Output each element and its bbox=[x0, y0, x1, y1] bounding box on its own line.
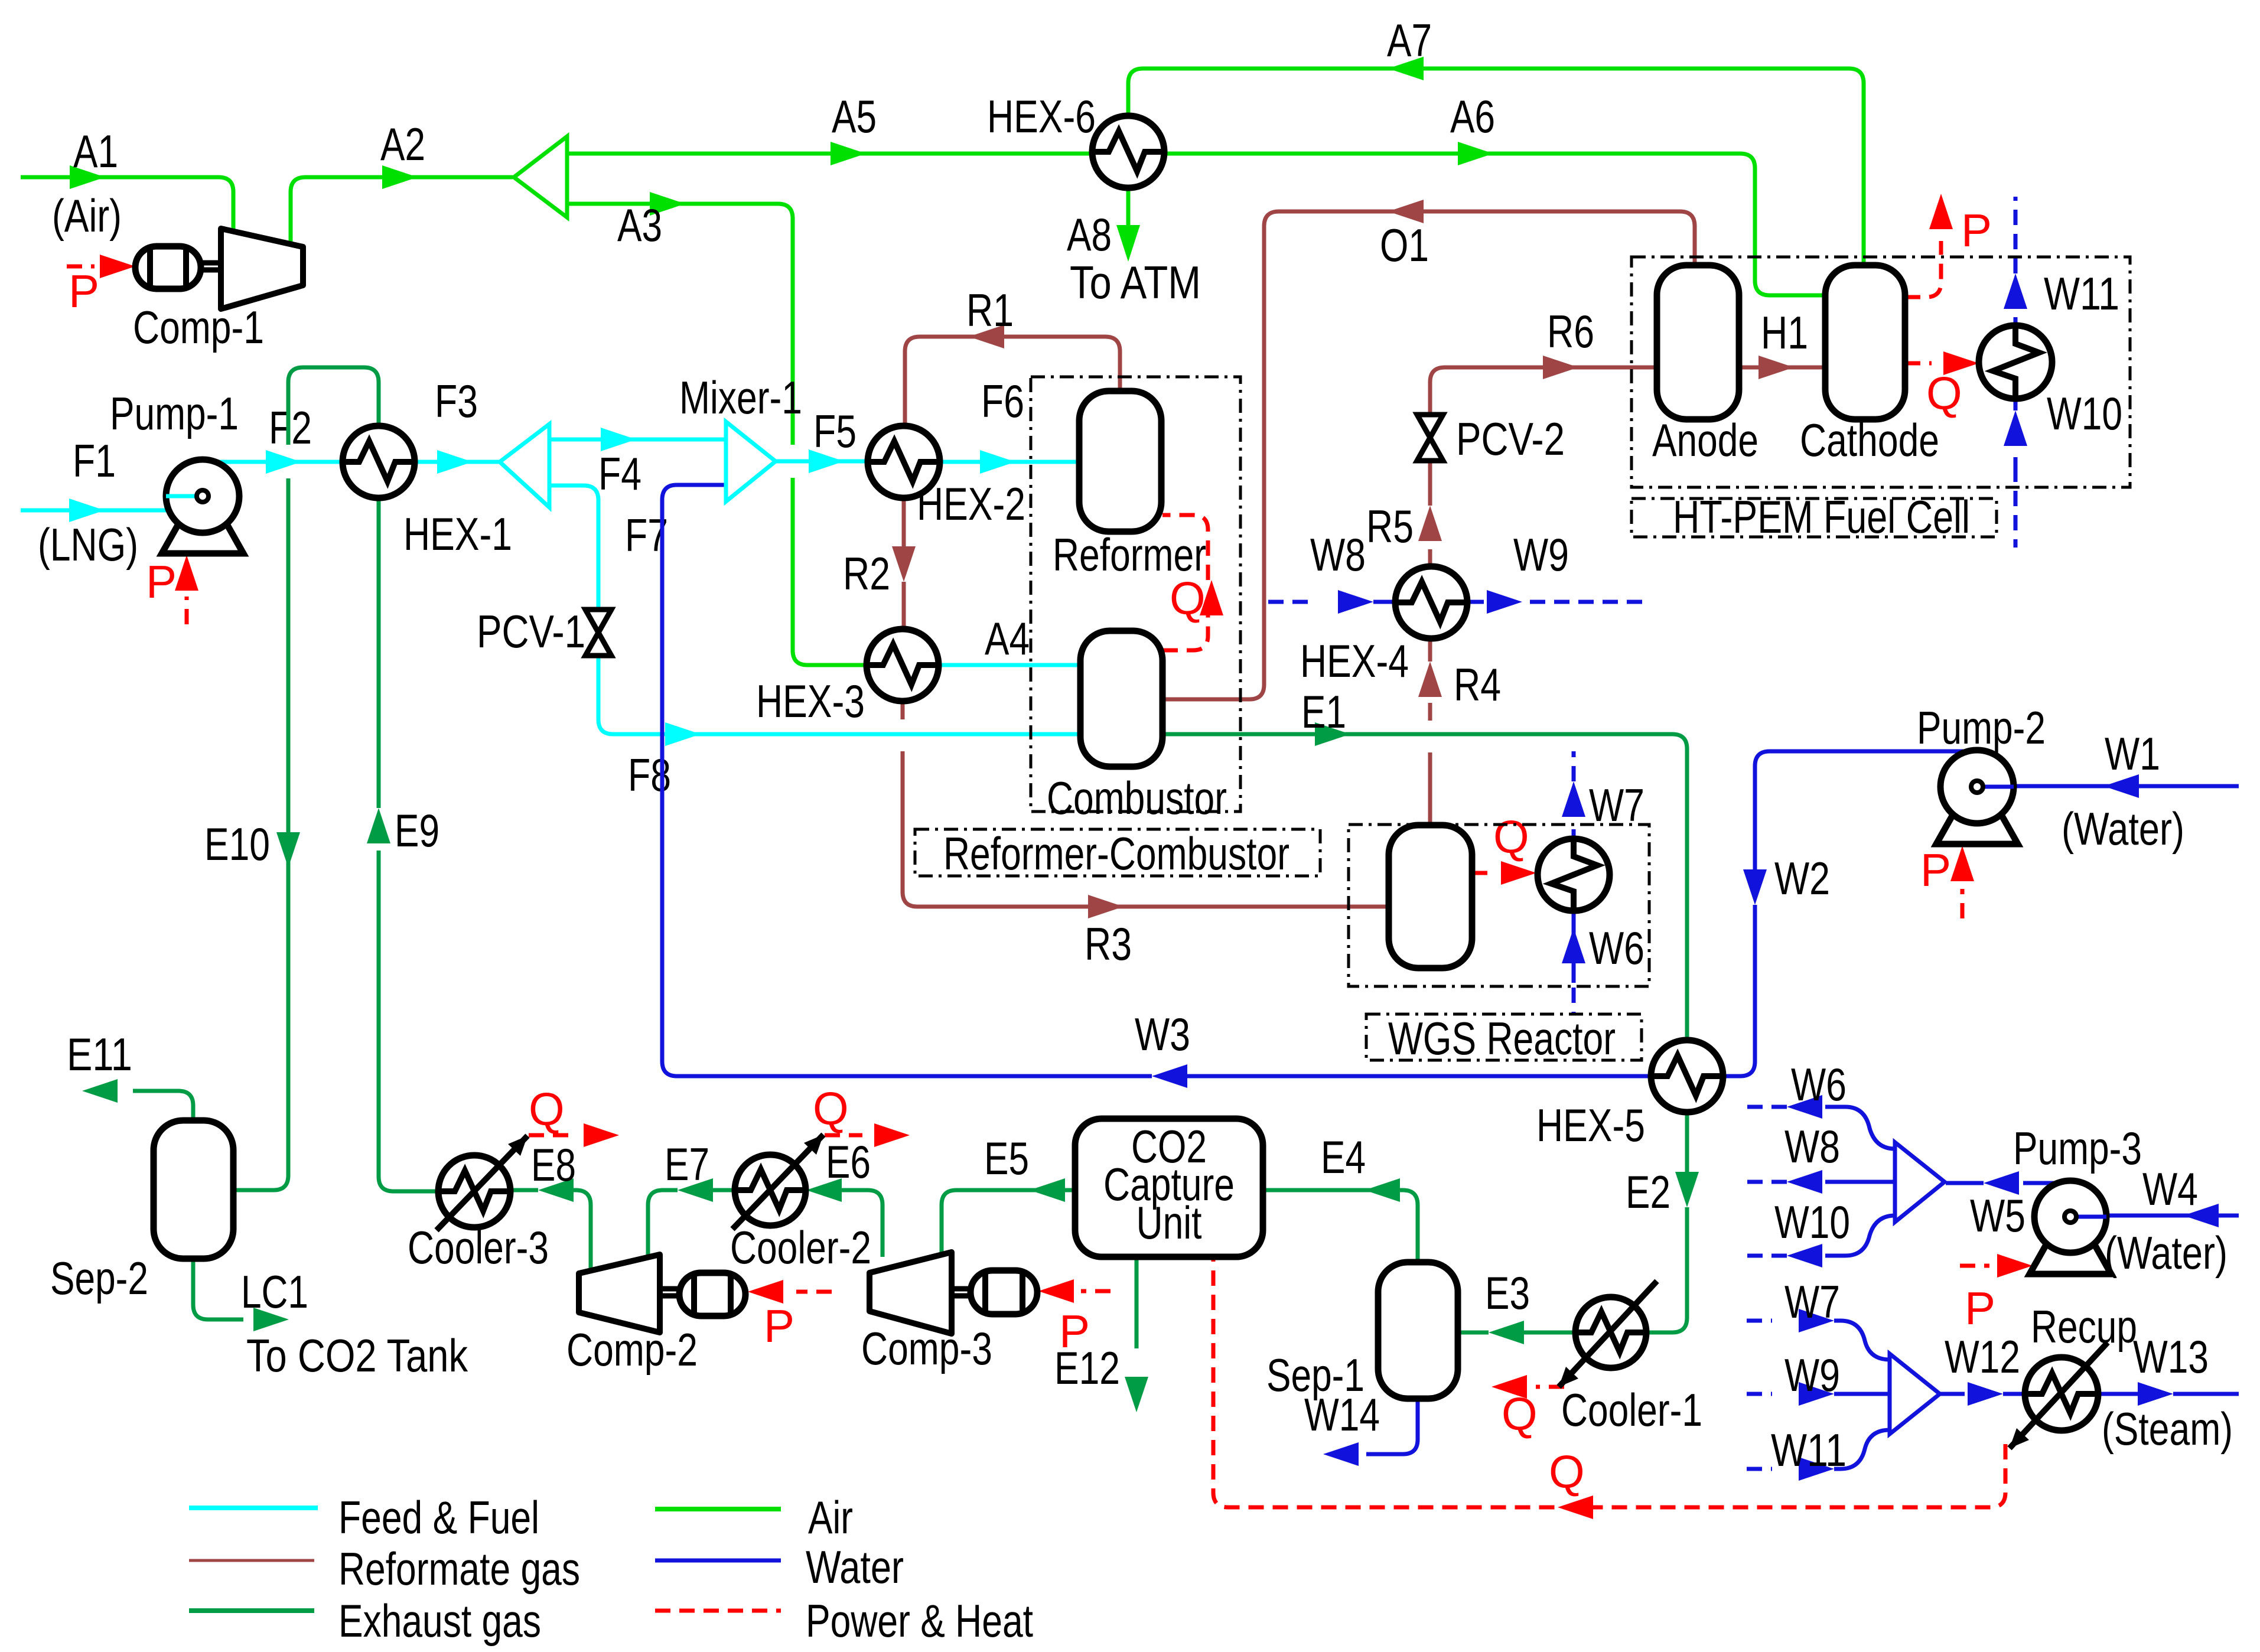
svg-text:(LNG): (LNG) bbox=[38, 519, 138, 571]
wire A7 Cathode to HEX-6 bbox=[1128, 69, 1864, 265]
vessel Cathode bbox=[1825, 265, 1905, 419]
pump Pump-3 bbox=[2030, 1242, 2111, 1274]
svg-text:W12: W12 bbox=[1945, 1331, 2020, 1383]
power P to Comp-2 bbox=[796, 1290, 832, 1294]
unit CO2 Capture bbox=[1075, 1119, 1263, 1257]
svg-text:A8: A8 bbox=[1067, 208, 1112, 260]
svg-text:Q: Q bbox=[1549, 1446, 1585, 1498]
power P to Pump-3 bbox=[1960, 1264, 1989, 1268]
cooler Cooler-1 bbox=[1575, 1297, 1646, 1368]
wire F1 LNG inlet bbox=[21, 509, 203, 513]
wire A1 air inlet bbox=[21, 177, 233, 231]
splitter tee feed bbox=[500, 424, 549, 507]
wire W7 WGS exchanger up bbox=[1572, 829, 1576, 839]
wire E1 Combustor to HEX-5 bbox=[1162, 734, 1687, 1040]
svg-text:Reformer-Combustor: Reformer-Combustor bbox=[943, 827, 1289, 879]
svg-text:Sep-2: Sep-2 bbox=[50, 1252, 148, 1304]
legend water line bbox=[655, 1559, 781, 1563]
wire E5 CO2 unit to Comp-3 bbox=[942, 1190, 1075, 1256]
svg-text:Q: Q bbox=[1926, 367, 1962, 419]
heat exchanger WGS cooling bbox=[1538, 839, 1610, 911]
wire A4 HEX-3 to Combustor bbox=[938, 663, 1080, 667]
svg-text:W6: W6 bbox=[1791, 1058, 1847, 1110]
svg-text:(Water): (Water) bbox=[2062, 803, 2184, 855]
wire W11 stub bbox=[1747, 1467, 1772, 1471]
svg-text:W8: W8 bbox=[1784, 1120, 1840, 1172]
svg-text:P: P bbox=[69, 265, 99, 317]
svg-text:A3: A3 bbox=[617, 199, 662, 251]
svg-text:E2: E2 bbox=[1626, 1166, 1670, 1218]
heat Q Cathode to exchanger bbox=[1905, 361, 1932, 366]
vessel Anode bbox=[1657, 265, 1739, 419]
svg-text:P: P bbox=[1965, 1282, 1995, 1334]
wire F5 Mixer-1 to HEX-2 bbox=[776, 460, 867, 464]
compressor Comp-2 bbox=[579, 1255, 660, 1332]
svg-text:O1: O1 bbox=[1380, 219, 1429, 271]
svg-text:LC1: LC1 bbox=[241, 1266, 308, 1318]
wire O1 Anode to Combustor bbox=[1161, 211, 1695, 699]
power P to Comp-3 bbox=[1081, 1289, 1111, 1293]
svg-text:H1: H1 bbox=[1761, 307, 1808, 359]
svg-text:R6: R6 bbox=[1547, 305, 1594, 357]
wire F2 Pump-1 to HEX-1 bbox=[207, 460, 343, 464]
wire W12 merger to Recup bbox=[1940, 1392, 1965, 1396]
svg-text:(Steam): (Steam) bbox=[2102, 1403, 2233, 1455]
heat exchanger HEX-2 bbox=[868, 426, 940, 498]
wire A6 HEX-6 to Cathode bbox=[1164, 154, 1825, 295]
svg-text:R2: R2 bbox=[843, 548, 890, 599]
power P from Cathode bbox=[1905, 241, 1941, 297]
heat exchanger HEX-6 bbox=[1092, 116, 1164, 188]
cooler Cooler-3 bbox=[438, 1155, 510, 1227]
svg-text:Q: Q bbox=[813, 1083, 849, 1135]
heat Q Cooler-1 out bbox=[1536, 1385, 1564, 1389]
svg-text:Exhaust gas: Exhaust gas bbox=[338, 1595, 541, 1647]
svg-text:P: P bbox=[764, 1300, 794, 1352]
svg-text:E6: E6 bbox=[826, 1136, 871, 1188]
svg-text:Comp-3: Comp-3 bbox=[861, 1322, 992, 1374]
svg-text:PCV-2: PCV-2 bbox=[1456, 413, 1565, 465]
wire E3 Cooler-1 to Sep-1 bbox=[1524, 1331, 1575, 1335]
wire E6 Comp-3 to Cooler-2 bbox=[842, 1190, 882, 1257]
svg-text:W11: W11 bbox=[1771, 1424, 1847, 1476]
svg-text:HEX-6: HEX-6 bbox=[987, 90, 1096, 142]
legend feed line bbox=[189, 1506, 318, 1510]
svg-text:Combustor: Combustor bbox=[1047, 772, 1227, 824]
pump Pump-2 bbox=[1936, 812, 2018, 844]
wire W13 Recup out bbox=[2098, 1392, 2138, 1396]
wire R4 WGS to HEX-4 bbox=[1428, 703, 1432, 825]
compressor Comp-3 bbox=[870, 1252, 952, 1334]
svg-text:R4: R4 bbox=[1454, 659, 1501, 711]
legend power line bbox=[655, 1609, 781, 1613]
svg-text:E4: E4 bbox=[1321, 1131, 1366, 1183]
svg-text:F6: F6 bbox=[981, 375, 1024, 427]
svg-text:Reformate gas: Reformate gas bbox=[338, 1543, 580, 1595]
svg-text:Q: Q bbox=[529, 1083, 565, 1135]
svg-text:W13: W13 bbox=[2133, 1331, 2209, 1383]
svg-text:W11: W11 bbox=[2044, 268, 2119, 320]
svg-text:R5: R5 bbox=[1366, 500, 1414, 552]
svg-text:F4: F4 bbox=[598, 448, 641, 500]
wire R1 Reformer to HEX-2 bbox=[905, 337, 1120, 426]
svg-text:W14: W14 bbox=[1304, 1389, 1380, 1441]
svg-text:F3: F3 bbox=[435, 375, 478, 427]
svg-text:W7: W7 bbox=[1784, 1276, 1840, 1328]
box HT-PEM Fuel Cell bbox=[1632, 257, 2130, 487]
svg-text:W3: W3 bbox=[1135, 1008, 1190, 1060]
motor M2 of Comp-2 bbox=[679, 1273, 745, 1316]
wire H1 Anode to Cathode bbox=[1739, 366, 1825, 370]
svg-text:F5: F5 bbox=[813, 405, 857, 457]
wire E2 HEX-5 to Cooler-1 bbox=[1685, 1113, 1689, 1172]
svg-text:HEX-4: HEX-4 bbox=[1300, 635, 1409, 687]
vessel Sep-2 bbox=[154, 1120, 233, 1259]
wire F3 HEX-1 to splitter bbox=[415, 460, 499, 464]
vessel Sep-1 bbox=[1378, 1262, 1458, 1399]
wire W11 exchanger up bbox=[2014, 317, 2018, 325]
wire W4 water inlet pump-3 bbox=[2072, 1214, 2239, 1218]
svg-text:HEX-3: HEX-3 bbox=[756, 675, 865, 727]
svg-text:Unit: Unit bbox=[1136, 1197, 1202, 1249]
svg-text:A5: A5 bbox=[832, 90, 877, 142]
svg-text:To ATM: To ATM bbox=[1070, 256, 1201, 308]
legend exhaust line bbox=[189, 1608, 314, 1613]
svg-text:Water: Water bbox=[806, 1541, 904, 1593]
svg-text:W10: W10 bbox=[2047, 387, 2122, 439]
power P to Pump-2 bbox=[1961, 889, 1965, 918]
heat Q Cooler-3 out bbox=[529, 1133, 568, 1138]
wire R6 PCV-2 to Anode bbox=[1430, 367, 1656, 415]
wire E9 Cooler-3 to HEX-1 loop to E10 bbox=[379, 851, 438, 1191]
valve PCV-2 bbox=[1417, 415, 1443, 438]
wire W9 stub bbox=[1747, 1392, 1772, 1396]
svg-text:Power & Heat: Power & Heat bbox=[806, 1595, 1033, 1647]
svg-text:W8: W8 bbox=[1310, 529, 1366, 581]
svg-text:Cooler-2: Cooler-2 bbox=[730, 1221, 871, 1273]
wire F8 PCV-1 to Combustor bbox=[598, 656, 1081, 734]
svg-text:Q: Q bbox=[1493, 811, 1529, 863]
svg-text:F8: F8 bbox=[628, 749, 671, 801]
svg-text:E5: E5 bbox=[984, 1132, 1029, 1184]
svg-text:W10: W10 bbox=[1774, 1196, 1850, 1248]
wire F6 HEX-2 to Reformer bbox=[940, 460, 1079, 464]
wire F7 splitter to PCV-1 bbox=[549, 486, 598, 609]
svg-text:E8: E8 bbox=[531, 1139, 576, 1191]
svg-text:R3: R3 bbox=[1085, 918, 1132, 970]
svg-text:HEX-5: HEX-5 bbox=[1536, 1099, 1645, 1151]
power P to Pump-1 bbox=[185, 597, 189, 624]
svg-text:E10: E10 bbox=[204, 818, 270, 870]
svg-text:W4: W4 bbox=[2142, 1163, 2198, 1215]
power P to Comp-1 bbox=[67, 265, 95, 269]
svg-text:A2: A2 bbox=[380, 118, 425, 170]
wire W1 water inlet bbox=[1979, 784, 2239, 788]
svg-text:Q: Q bbox=[1170, 572, 1206, 624]
heat exchanger HEX-5 bbox=[1651, 1040, 1723, 1112]
wire E11 Sep-2 out bbox=[133, 1091, 193, 1120]
heat Q Recup to CO2 unit bbox=[1213, 1258, 2005, 1507]
svg-text:Feed & Fuel: Feed & Fuel bbox=[338, 1491, 539, 1543]
svg-text:PCV-1: PCV-1 bbox=[477, 605, 585, 657]
heat exchanger HEX-4 bbox=[1395, 566, 1467, 638]
box WGS Reactor bbox=[1349, 825, 1649, 986]
motor M1 of Comp-1 bbox=[135, 246, 201, 289]
svg-text:E7: E7 bbox=[665, 1138, 709, 1190]
vessel Reformer bbox=[1079, 391, 1161, 532]
svg-text:E3: E3 bbox=[1485, 1267, 1530, 1319]
svg-text:W6: W6 bbox=[1589, 922, 1644, 974]
motor M3 of Comp-3 bbox=[971, 1270, 1037, 1314]
wire W9 HEX-4 out bbox=[1467, 600, 1484, 604]
wire A2 Comp-1 to splitter bbox=[291, 177, 513, 245]
legend air line bbox=[655, 1507, 781, 1511]
label box HT-PEM Fuel Cell bbox=[1632, 498, 1997, 537]
svg-text:Pump-3: Pump-3 bbox=[2013, 1122, 2142, 1174]
svg-text:P: P bbox=[146, 556, 177, 608]
wire R3 HEX-3 to WGS bbox=[903, 701, 1388, 907]
svg-text:F1: F1 bbox=[73, 435, 116, 487]
svg-text:E9: E9 bbox=[395, 804, 439, 856]
svg-text:To CO2 Tank: To CO2 Tank bbox=[246, 1330, 468, 1381]
svg-text:Pump-1: Pump-1 bbox=[110, 387, 239, 439]
svg-text:WGS Reactor: WGS Reactor bbox=[1388, 1012, 1616, 1064]
heat exchanger HEX-1 bbox=[343, 426, 415, 498]
splitter water bbox=[1895, 1142, 1945, 1222]
heat Q WGS to exchanger bbox=[1472, 871, 1489, 875]
heat Q Combustor to Reformer bbox=[1162, 515, 1208, 650]
svg-text:Q: Q bbox=[1502, 1388, 1538, 1440]
svg-text:P: P bbox=[1920, 844, 1951, 896]
svg-text:Air: Air bbox=[808, 1491, 853, 1543]
wire A5 splitter to HEX-6 bbox=[567, 152, 1092, 156]
wire W5 Pump-3 to splitter bbox=[2023, 1181, 2064, 1185]
svg-text:W1: W1 bbox=[2105, 728, 2160, 780]
wire LC1 Sep-2 bottom bbox=[193, 1259, 243, 1319]
vessel Combustor bbox=[1080, 631, 1162, 767]
wire W8 HEX-4 in bbox=[1268, 600, 1314, 604]
wire E7 Cooler-2 to Comp-2 bbox=[713, 1188, 735, 1192]
wire R5 HEX-4 to PCV-2 bbox=[1428, 549, 1432, 566]
svg-text:HEX-1: HEX-1 bbox=[403, 508, 512, 560]
svg-text:W9: W9 bbox=[1784, 1349, 1840, 1401]
svg-text:W2: W2 bbox=[1774, 852, 1830, 904]
recuperator Recup bbox=[2025, 1357, 2098, 1431]
svg-text:R1: R1 bbox=[966, 284, 1014, 336]
label box Reformer-Combustor bbox=[915, 829, 1320, 876]
wire E4 Sep-1 to CO2 unit bbox=[1264, 1190, 1418, 1262]
wire W3 HEX-5 to Mixer-1 bbox=[1187, 1074, 1650, 1078]
svg-text:(Water): (Water) bbox=[2105, 1227, 2228, 1279]
wire E12 CO2 unit down bbox=[1135, 1257, 1139, 1348]
compressor Comp-1 bbox=[221, 229, 303, 309]
wire A3 splitter down to HEX-3 bbox=[566, 204, 868, 665]
svg-text:P: P bbox=[1961, 204, 1992, 256]
wire A8 HEX-6 to ATM bbox=[1126, 188, 1131, 226]
svg-text:E1: E1 bbox=[1301, 686, 1346, 738]
wire F4 splitter to Mixer-1 bbox=[549, 438, 725, 442]
svg-text:W9: W9 bbox=[1513, 529, 1569, 581]
box Reformer-Combustor bbox=[1031, 377, 1240, 812]
heat exchanger fuel cell cooling bbox=[1979, 325, 2052, 399]
wire W10 stub bbox=[1825, 1216, 1895, 1256]
svg-text:Cooler-1: Cooler-1 bbox=[1561, 1384, 1702, 1436]
mixer Mixer-1 bbox=[726, 422, 776, 501]
svg-text:E11: E11 bbox=[67, 1028, 132, 1080]
svg-text:(Air): (Air) bbox=[52, 190, 122, 242]
wire E8 Comp-2 to Cooler-3 bbox=[574, 1190, 591, 1269]
heat Q Cooler-2 out bbox=[825, 1133, 862, 1138]
wire W6 stub bbox=[1825, 1107, 1895, 1149]
svg-text:Mixer-1: Mixer-1 bbox=[679, 372, 802, 423]
wire W6 WGS exchanger in bbox=[1572, 911, 1576, 983]
svg-text:Comp-2: Comp-2 bbox=[566, 1324, 698, 1376]
merger water bbox=[1890, 1354, 1940, 1434]
svg-text:A1: A1 bbox=[73, 125, 118, 177]
wire W14 Sep-1 out bbox=[1366, 1399, 1418, 1454]
wire R2 HEX-2 to HEX-3 bbox=[902, 498, 906, 546]
vessel WGS bbox=[1389, 825, 1472, 968]
svg-text:Recup: Recup bbox=[2031, 1301, 2137, 1353]
splitter tee air bbox=[514, 136, 567, 217]
wire W10 exchanger in bbox=[2014, 399, 2018, 467]
wire W2 Pump-2 to HEX-5 bbox=[1755, 751, 1980, 869]
wire W8 stub bbox=[1825, 1180, 1895, 1184]
legend reformate line bbox=[189, 1559, 314, 1562]
svg-text:P: P bbox=[1059, 1305, 1090, 1357]
wire W7 stub bbox=[1747, 1319, 1772, 1323]
svg-text:Comp-1: Comp-1 bbox=[133, 301, 264, 353]
svg-text:A6: A6 bbox=[1450, 90, 1495, 142]
arrow E10 down bbox=[276, 832, 300, 868]
label box WGS Reactor bbox=[1366, 1014, 1642, 1060]
svg-text:W5: W5 bbox=[1970, 1190, 2025, 1242]
svg-text:Pump-2: Pump-2 bbox=[1917, 702, 2046, 754]
svg-text:A4: A4 bbox=[985, 612, 1030, 664]
heat exchanger HEX-3 bbox=[867, 629, 939, 701]
pump Pump-1 bbox=[162, 521, 243, 553]
svg-text:A7: A7 bbox=[1387, 14, 1432, 66]
valve PCV-1 bbox=[585, 610, 611, 633]
cooler Cooler-2 bbox=[735, 1155, 806, 1226]
